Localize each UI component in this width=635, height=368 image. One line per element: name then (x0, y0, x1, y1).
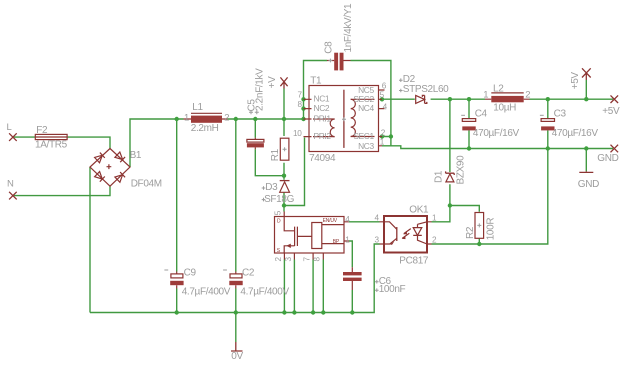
capacitor C3 (540, 109, 598, 139)
svg-text:R1: R1 (270, 148, 281, 161)
inductor L1 (184, 102, 230, 134)
wire U1 BP pin to C6 (349, 241, 352, 313)
junction D1 / R2 branch (448, 203, 452, 207)
svg-text:C4: C4 (475, 109, 488, 120)
wire R1 top and bottom (283, 119, 285, 176)
junction DC bus / C5 (253, 117, 257, 121)
capacitor C9 (164, 267, 230, 297)
svg-text:2: 2 (525, 89, 530, 100)
svg-text:2.2nF/1kV: 2.2nF/1kV (254, 68, 265, 111)
junction SEC2 pin5 (380, 97, 384, 101)
svg-text:0V: 0V (231, 351, 243, 362)
svg-text:D: D (277, 219, 281, 225)
wire C9 drop (176, 119, 178, 313)
wire bridge plus up to DC bus (130, 119, 184, 167)
svg-text:4: 4 (345, 215, 350, 224)
svg-text:NC3: NC3 (358, 141, 374, 151)
junction NC2 pin8 (301, 106, 305, 110)
svg-text:PRI2: PRI2 (314, 131, 332, 141)
svg-text:STPS2L60: STPS2L60 (403, 84, 449, 95)
wire bridge minus to bottom rail (89, 167, 91, 313)
svg-text:GND: GND (578, 179, 599, 190)
optocoupler OK1 (375, 204, 437, 266)
svg-text:470µF/16V: 470µF/16V (473, 128, 520, 139)
svg-text:8: 8 (313, 257, 322, 262)
svg-text:C2: C2 (242, 267, 255, 278)
svg-text:2: 2 (274, 257, 283, 262)
diode D2 STPS2L60 (399, 74, 449, 104)
wire L input to fuse (14, 136, 35, 138)
wire C5 drop and bottom link (255, 119, 284, 176)
svg-text:N: N (7, 179, 14, 190)
junction bottom rail / U1 source a (282, 310, 286, 314)
junction DC bus / PRI1 (301, 117, 305, 121)
svg-text:1: 1 (380, 138, 385, 147)
svg-text:470µF/16V: 470µF/16V (552, 128, 599, 139)
junction bottom rail / U1 source b (292, 310, 296, 314)
svg-text:PC817: PC817 (399, 255, 429, 266)
junction bottom rail / C9 (175, 310, 179, 314)
svg-text:1A/TR5: 1A/TR5 (35, 140, 68, 151)
svg-text:L: L (7, 122, 12, 133)
svg-text:1nF/4kV/Y1: 1nF/4kV/Y1 (343, 3, 354, 53)
svg-text:NC2: NC2 (314, 103, 330, 113)
junction gnd rail / C3 (546, 146, 550, 150)
junction drain node (282, 203, 286, 207)
svg-text:10µH: 10µH (493, 102, 516, 113)
wire fuse to bridge AC1 (67, 137, 110, 148)
svg-text:4.7µF/400V: 4.7µF/400V (240, 286, 289, 297)
wire U1 source pins to bottom rail (284, 260, 323, 313)
ground GND symbol (578, 171, 599, 190)
wire bottom rail (90, 244, 380, 313)
junction R2 / OK1 pin2 (477, 242, 481, 246)
wire R2 branch (450, 206, 479, 212)
svg-text:1: 1 (184, 113, 189, 124)
svg-text:NC4: NC4 (358, 103, 374, 113)
wire C2 drop (235, 119, 237, 313)
svg-text:F2: F2 (36, 125, 48, 136)
junction clamp node C5/R1/D3 (282, 174, 286, 178)
svg-text:2: 2 (432, 236, 437, 245)
junction gnd rail / C4 (467, 146, 471, 150)
svg-text:2: 2 (381, 129, 386, 138)
svg-text:EN/UV: EN/UV (323, 218, 338, 224)
wire D1 feedback drop (432, 99, 450, 222)
resistor R2 (465, 213, 496, 241)
wire +5V supply drop (585, 80, 587, 99)
svg-text:4: 4 (375, 213, 380, 222)
svg-text:BZX90: BZX90 (456, 155, 467, 185)
svg-text:3: 3 (284, 257, 293, 262)
junction DC bus / C2 (234, 117, 238, 121)
svg-text:1: 1 (432, 213, 437, 222)
svg-text:5: 5 (274, 210, 283, 215)
svg-text:1: 1 (483, 89, 488, 100)
capacitor C2 (223, 267, 289, 297)
wire OK1 pin2 to secondary gnd (432, 149, 548, 245)
supply +V arrow (267, 76, 288, 89)
svg-text:2: 2 (224, 113, 229, 124)
junction C8 / SEC1 (389, 134, 393, 138)
wire SEC2 pin5 to D2 anode (382, 98, 415, 100)
wire D2 cathode to output rail (431, 98, 485, 100)
diode D3 clamp (262, 181, 295, 206)
supply +5V arrow (570, 68, 591, 89)
junction bottom rail / C2 (234, 310, 238, 314)
node +5V pinhead marker (602, 95, 620, 117)
node GND pinhead marker (597, 145, 618, 164)
wire C4 legs (468, 99, 470, 148)
svg-text:6: 6 (382, 81, 387, 90)
wire 0V stub (235, 313, 237, 343)
IC U1 switcher (274, 210, 351, 261)
svg-text:D3: D3 (265, 182, 278, 193)
svg-text:B1: B1 (130, 150, 142, 161)
junction gnd rail / GND symbol (584, 146, 588, 150)
svg-text:3: 3 (375, 236, 380, 245)
node L pinhead marker (7, 122, 17, 141)
supply 0V symbol (231, 342, 244, 362)
junction output rail / D2 (448, 97, 452, 101)
svg-text:R2: R2 (465, 226, 476, 239)
svg-text:4: 4 (383, 102, 388, 111)
svg-text:7: 7 (298, 91, 303, 100)
svg-text:100R: 100R (486, 218, 497, 241)
bridge rectifier B1 (90, 149, 162, 190)
wire N input to bridge AC2 (14, 186, 110, 195)
capacitor C5 (clamp) (247, 68, 266, 149)
svg-text:+5V: +5V (602, 106, 620, 117)
wire secondary ground from pins 2,1 (382, 137, 613, 149)
capacitor C4 (461, 109, 519, 139)
junction SEC1 pin2 (380, 134, 384, 138)
junction DC bus / R1 (282, 117, 286, 121)
resistor R1 (270, 138, 289, 161)
wire D3 anode/cathode leads (283, 176, 285, 206)
svg-text:1: 1 (345, 235, 350, 244)
inductor L2 (483, 84, 530, 114)
svg-text:5: 5 (380, 91, 385, 100)
svg-text:T1: T1 (310, 76, 322, 87)
junction bottom rail / U1 source c (311, 310, 315, 314)
wire DC bus after L1 (228, 118, 304, 120)
wire drain node to PRI2 (284, 138, 305, 206)
svg-text:4.7µF/400V: 4.7µF/400V (182, 286, 231, 297)
svg-text:+V: +V (267, 76, 278, 88)
junction DC bus / C9 (175, 117, 179, 121)
svg-text:GND: GND (597, 153, 618, 164)
svg-text:OK1: OK1 (409, 204, 429, 215)
capacitor C8 (Y-cap) (323, 3, 353, 70)
svg-text:+5V: +5V (570, 72, 581, 90)
svg-text:D1: D1 (434, 170, 445, 183)
svg-text:C8: C8 (323, 41, 334, 54)
svg-text:DF04M: DF04M (131, 178, 162, 189)
wire C8 left leg to PRI1 node (304, 61, 328, 120)
svg-text:L1: L1 (192, 102, 203, 113)
svg-text:100nF: 100nF (379, 284, 406, 295)
junction output rail / C4 (467, 97, 471, 101)
wire drain node to U1 drain pin (283, 206, 285, 212)
svg-text:C9: C9 (184, 267, 197, 278)
junction output rail / +5V (584, 97, 588, 101)
svg-text:C3: C3 (554, 109, 567, 120)
wire +V supply drop (283, 89, 285, 120)
junction bottom rail / U1 source d (321, 310, 325, 314)
transformer T1 (293, 76, 388, 165)
wire R2 bottom (478, 238, 480, 244)
wire C3 legs (547, 99, 549, 148)
wire output rail after L2 to +5V pin (530, 98, 614, 100)
svg-text:8: 8 (298, 100, 303, 109)
junction bottom rail / C6 (350, 310, 354, 314)
wire GND symbol drop (585, 149, 587, 172)
zener diode D1 (434, 155, 467, 185)
wire U1 EN pin to OK1 pin4 (349, 221, 380, 223)
capacitor C6 (343, 267, 406, 295)
svg-text:SEC1: SEC1 (353, 131, 374, 141)
svg-text:PRI1: PRI1 (314, 114, 332, 124)
wire C8 right leg to SEC1 node (351, 61, 391, 137)
svg-text:2.2mH: 2.2mH (191, 123, 219, 134)
svg-text:L2: L2 (493, 84, 504, 95)
svg-text:SF18G: SF18G (264, 194, 295, 205)
junction NC1 pin7 (301, 97, 305, 101)
svg-text:7: 7 (303, 257, 312, 262)
svg-text:74094: 74094 (309, 153, 336, 164)
junction output rail / C3 (546, 97, 550, 101)
svg-text:10: 10 (293, 129, 302, 138)
node N pinhead marker (7, 179, 17, 200)
fuse F2 (35, 125, 68, 150)
svg-text:BP: BP (333, 239, 340, 245)
